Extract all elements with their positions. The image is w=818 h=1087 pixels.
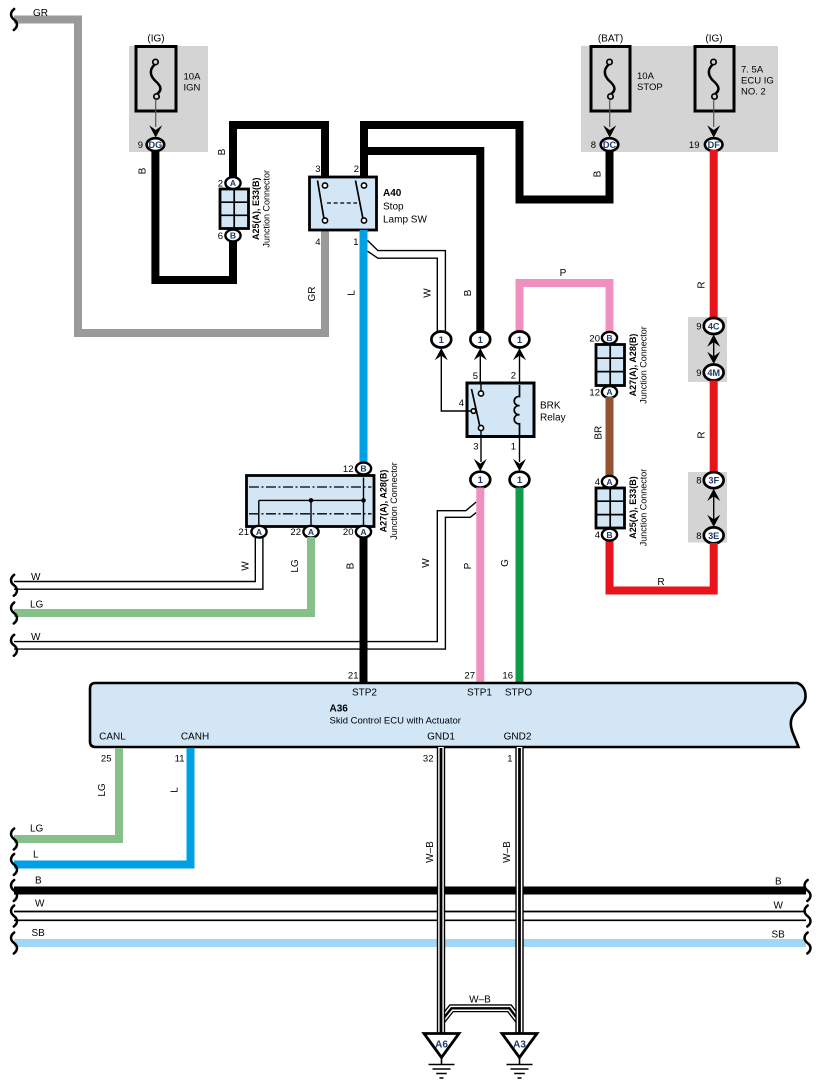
svg-text:32: 32 (423, 754, 434, 765)
arrow into oval STPO (513, 459, 526, 471)
svg-text:DC: DC (603, 140, 617, 150)
connector DF (705, 138, 723, 151)
svg-text:B: B (593, 170, 604, 177)
junction connector A25(A) E33(B) top-left box (220, 189, 249, 229)
svg-text:GR: GR (33, 8, 48, 19)
svg-text:Relay: Relay (540, 413, 566, 424)
arrow into DC (603, 125, 616, 137)
svg-text:STP1: STP1 (467, 688, 492, 699)
wire break squiggle W1 (11, 575, 17, 596)
svg-text:Junction Connector: Junction Connector (639, 326, 649, 404)
svg-text:8: 8 (696, 531, 701, 542)
svg-text:BR: BR (594, 426, 605, 440)
junction connector A27(A) A28(B) small box (596, 345, 625, 386)
A40 switch contacts (318, 181, 325, 220)
connector oval 4M (704, 365, 724, 381)
svg-text:A27(A), A28(B): A27(A), A28(B) (379, 470, 389, 533)
svg-text:4: 4 (595, 530, 600, 541)
svg-text:B: B (463, 289, 474, 296)
svg-text:STOP: STOP (637, 82, 663, 93)
ground symbol A3 (507, 1058, 533, 1079)
svg-text:1: 1 (353, 237, 358, 248)
wire W-B GND2 to ground A3 (striped) (515, 747, 523, 1034)
arrow into oval W (435, 348, 448, 360)
fuse 10A IGN body (136, 47, 176, 112)
svg-text:3: 3 (473, 442, 478, 453)
svg-text:LG: LG (290, 559, 301, 573)
svg-text:Junction Connector: Junction Connector (262, 170, 272, 248)
svg-text:W: W (423, 288, 434, 298)
svg-text:B: B (346, 562, 357, 569)
svg-text:B: B (775, 877, 782, 888)
svg-text:A: A (256, 527, 262, 537)
svg-text:9: 9 (138, 140, 143, 151)
svg-text:16: 16 (502, 671, 513, 682)
wire P junction connector B to relay (520, 283, 610, 332)
wire L A40 pin1 to junction connector (360, 230, 368, 463)
wire break squiggles W bus (11, 906, 17, 927)
svg-text:SB: SB (32, 928, 46, 939)
svg-text:W–B: W–B (469, 995, 491, 1006)
wire W-B link between grounds (striped) (441, 1008, 520, 1021)
arrow into DG (149, 125, 162, 137)
svg-text:R: R (697, 431, 708, 438)
svg-text:LG: LG (30, 600, 44, 611)
svg-text:NO. 2: NO. 2 (741, 87, 766, 98)
wire L CANH to left edge (14, 748, 191, 865)
svg-text:A40: A40 (383, 188, 402, 199)
svg-text:R: R (697, 281, 708, 288)
svg-text:1: 1 (511, 442, 516, 453)
wire W tap from L to relay connector (double line) (368, 241, 446, 332)
svg-text:Junction Connector: Junction Connector (389, 462, 399, 540)
svg-text:22: 22 (290, 527, 301, 538)
connector oval B (pin 4b) (602, 529, 617, 541)
svg-text:27: 27 (464, 671, 475, 682)
svg-text:20: 20 (343, 527, 354, 538)
connector oval A (pin 2) (225, 177, 240, 189)
svg-text:10A: 10A (637, 71, 655, 82)
svg-text:B: B (138, 167, 149, 174)
svg-text:W: W (31, 572, 41, 583)
svg-text:LG: LG (30, 824, 44, 835)
svg-text:1: 1 (517, 475, 523, 486)
ground triangle A6 (424, 1034, 459, 1058)
wire B bus full width (14, 887, 806, 895)
svg-text:A25(A), E33(B): A25(A), E33(B) (628, 476, 638, 539)
svg-text:A: A (606, 387, 612, 397)
lead fuse2 to connector (609, 99, 611, 127)
connector oval A (pin 20) (356, 526, 371, 538)
connector oval B (pin 20) (602, 332, 617, 344)
svg-text:3F: 3F (708, 476, 719, 486)
svg-text:W–B: W–B (502, 841, 513, 863)
svg-text:B: B (606, 333, 612, 343)
connector DG (147, 138, 165, 151)
svg-text:4M: 4M (707, 368, 720, 378)
wire B from DG to junction connector (155, 150, 233, 280)
svg-text:(IG): (IG) (705, 34, 722, 45)
connector oval A (pin 22) (303, 526, 318, 538)
wire break squiggles SB bus (11, 933, 17, 954)
svg-text:B: B (360, 464, 366, 474)
svg-text:4: 4 (459, 398, 464, 409)
svg-text:6: 6 (218, 231, 223, 242)
wire W junction A21 to left edge (double line) (14, 537, 263, 589)
connector DC (601, 138, 619, 151)
wire B junction connector to A40 pin 3 (233, 125, 325, 178)
svg-text:W: W (421, 558, 432, 568)
lead P oval to relay pin 2 (519, 355, 521, 388)
svg-text:A3: A3 (513, 1040, 526, 1051)
busbar dash-dot lines (249, 487, 372, 514)
svg-text:25: 25 (101, 754, 112, 765)
svg-text:A36: A36 (330, 704, 349, 715)
lead fuse1 to connector (155, 99, 157, 127)
svg-text:11: 11 (175, 754, 185, 765)
connector oval 1 (W wire) (431, 332, 451, 348)
svg-text:1: 1 (439, 335, 445, 346)
fuse panel (IG) background (129, 46, 208, 152)
svg-text:Skid Control ECU with Actuator: Skid Control ECU with Actuator (330, 716, 461, 727)
svg-text:STPO: STPO (505, 688, 532, 699)
connector oval 1 (STPO) (510, 472, 530, 488)
junction dots (309, 498, 314, 503)
wire B junction A20 to STP2 (360, 537, 368, 683)
svg-text:B: B (606, 530, 612, 540)
svg-text:1: 1 (517, 335, 523, 346)
svg-text:W: W (31, 632, 41, 643)
connector oval 4C (704, 318, 724, 334)
svg-text:4C: 4C (708, 322, 720, 332)
svg-text:19: 19 (689, 140, 700, 151)
svg-text:10A: 10A (184, 72, 202, 83)
svg-text:21: 21 (348, 671, 359, 682)
svg-text:A: A (230, 178, 236, 188)
lead B oval to relay pin 5 (479, 355, 481, 391)
BRK relay box (467, 383, 534, 437)
arrow into oval STP1 (474, 459, 487, 471)
svg-text:3E: 3E (708, 531, 719, 541)
wire R 4M to 3F (710, 381, 718, 473)
svg-text:A: A (606, 477, 612, 487)
wire GR from battery feed (14, 20, 325, 334)
svg-text:B: B (217, 148, 228, 155)
svg-text:A: A (308, 527, 314, 537)
connector oval B (pin 6) (225, 230, 240, 242)
svg-text:R: R (657, 577, 664, 588)
BRK relay switch (472, 389, 481, 427)
svg-text:4: 4 (315, 237, 320, 248)
svg-text:W–B: W–B (425, 841, 436, 863)
wire G relay to STPO (516, 488, 524, 684)
svg-text:GND1: GND1 (427, 732, 455, 743)
arrow into oval B (474, 348, 487, 360)
svg-text:1: 1 (507, 754, 512, 765)
svg-text:A: A (360, 527, 366, 537)
connector oval A (pin 4) (602, 476, 617, 488)
lead fuse3 to connector (713, 99, 715, 127)
wire break squiggles B bus (11, 880, 17, 901)
connector oval 3E (704, 527, 724, 543)
internal bus line (259, 478, 364, 525)
wire LG junction A22 to left edge (14, 537, 311, 613)
svg-text:SB: SB (772, 930, 786, 941)
svg-text:W: W (35, 899, 45, 910)
svg-text:B: B (230, 231, 236, 241)
svg-text:9: 9 (696, 322, 701, 333)
svg-text:L: L (347, 290, 358, 296)
A40 mechanical link dashed (327, 202, 357, 204)
svg-text:B: B (35, 876, 42, 887)
fuse 7.5A ECU IG body (695, 47, 734, 112)
svg-text:(BAT): (BAT) (598, 34, 623, 45)
wire R 3E to junction connector B (610, 541, 714, 591)
wire W bus full width (double line) (14, 912, 806, 921)
svg-text:7. 5A: 7. 5A (741, 65, 764, 76)
svg-text:GR: GR (307, 287, 318, 302)
connector oval 3F (704, 472, 724, 488)
connector oval A (pin 21) (251, 526, 266, 538)
svg-text:Lamp SW: Lamp SW (383, 215, 427, 226)
lead pin3 inside relay (480, 431, 482, 437)
arrows between 3F and 3E (707, 489, 720, 501)
svg-text:2: 2 (218, 179, 223, 190)
svg-text:STP2: STP2 (352, 688, 377, 699)
svg-text:Junction Connector: Junction Connector (639, 469, 649, 547)
connector oval A (pin 12) (602, 386, 617, 398)
svg-text:DF: DF (708, 140, 721, 150)
wire SB bus full width (14, 939, 806, 947)
arrow into oval P (513, 348, 526, 360)
fuse 10A STOP body (591, 47, 630, 112)
svg-text:CANH: CANH (181, 732, 209, 743)
svg-text:8: 8 (591, 140, 596, 151)
svg-text:5: 5 (473, 371, 478, 382)
ECU A36 box (90, 683, 806, 747)
svg-text:1: 1 (478, 475, 484, 486)
junction connector A27(A) A28(B) wide box (247, 476, 375, 527)
svg-text:P: P (560, 268, 567, 279)
junction connector A25(A) E33(B) right box (596, 488, 625, 528)
svg-text:W: W (241, 561, 252, 571)
wire LG CANL to left edge (14, 748, 119, 839)
svg-text:CANL: CANL (99, 732, 126, 743)
arrows between 4C and 4M (707, 335, 720, 347)
svg-text:DG: DG (149, 140, 163, 150)
connector oval 1 (P wire) (510, 332, 530, 348)
wire W tap from P to left edge (double line) (14, 502, 476, 649)
connector oval 1 (B wire) (470, 332, 490, 348)
svg-text:1: 1 (478, 335, 484, 346)
fuse 10A IGN element (153, 59, 158, 64)
svg-text:G: G (500, 559, 511, 567)
svg-text:IGN: IGN (184, 83, 201, 94)
lead relay pin 3 down (480, 437, 482, 463)
svg-text:9: 9 (696, 368, 701, 379)
svg-text:3: 3 (315, 164, 320, 175)
svg-text:21: 21 (238, 527, 249, 538)
BRK relay coil (514, 385, 519, 435)
svg-text:L: L (33, 850, 39, 861)
lead W oval to relay pin 4 (441, 355, 466, 411)
wire P relay to STP1 (476, 488, 484, 684)
fuse panel (BAT)/(IG) background (581, 46, 778, 152)
svg-text:GND2: GND2 (504, 732, 532, 743)
svg-text:A27(A), A28(B): A27(A), A28(B) (628, 334, 638, 397)
svg-text:A25(A), E33(B): A25(A), E33(B) (251, 178, 261, 241)
wire break squiggle W2 (11, 635, 17, 656)
svg-text:(IG): (IG) (147, 34, 164, 45)
wire B A40 pin2 to DC (364, 125, 610, 200)
svg-text:BRK: BRK (540, 401, 561, 412)
svg-text:12: 12 (589, 388, 600, 399)
svg-text:LG: LG (97, 783, 108, 797)
svg-text:20: 20 (589, 333, 600, 344)
connector panel 4C/4M (688, 317, 727, 382)
ground triangle A3 (502, 1034, 537, 1058)
svg-text:A6: A6 (435, 1040, 448, 1051)
svg-text:2: 2 (354, 164, 359, 175)
svg-text:ECU IG: ECU IG (741, 76, 774, 87)
ground symbol A6 (429, 1058, 455, 1079)
svg-text:W: W (774, 901, 784, 912)
wire W-B GND1 to ground A6 (striped) (437, 747, 445, 1034)
connector oval 1 (STP1) (470, 472, 490, 488)
connector panel 3F/3E (688, 472, 727, 543)
svg-text:L: L (170, 787, 181, 793)
wire B branch to BRK relay (363, 151, 480, 332)
svg-text:Stop: Stop (383, 202, 404, 213)
arrow into DF (707, 125, 720, 137)
A40 stop lamp switch box (310, 177, 377, 230)
svg-text:2: 2 (511, 371, 516, 382)
svg-text:8: 8 (696, 476, 701, 487)
wire break squiggle GR (11, 9, 17, 30)
svg-text:4: 4 (595, 477, 600, 488)
wire break squiggle LG (11, 603, 17, 624)
svg-text:P: P (463, 562, 474, 569)
svg-text:12: 12 (343, 464, 354, 475)
wire BR A to A25 junction (606, 397, 614, 477)
lead pin5 and pin4 inside relay (468, 384, 482, 411)
connector oval B (pin 12) (356, 463, 371, 475)
wire break squiggle L2 (11, 854, 17, 875)
lead relay pin 1 down (519, 437, 521, 463)
wire R DF to 4C (710, 150, 718, 318)
wire break squiggle LG2 (11, 829, 17, 850)
